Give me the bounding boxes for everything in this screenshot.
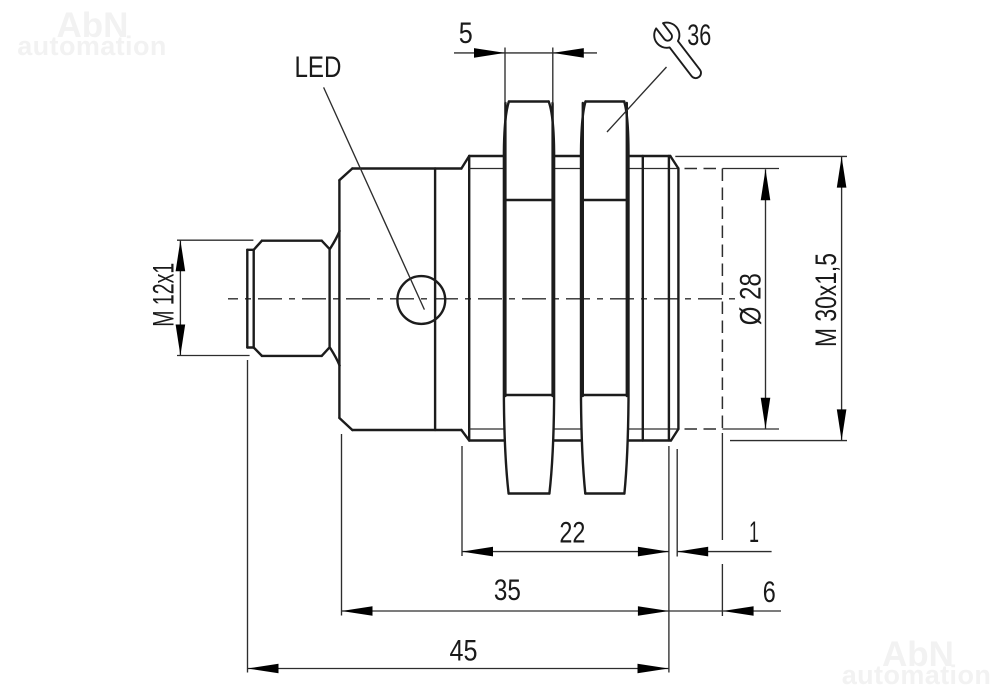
jam nut 2 chamfer lines <box>582 200 629 395</box>
thread run-in chamfer bottom <box>461 430 469 441</box>
svg-text:6: 6 <box>763 576 776 609</box>
LED window circle <box>397 276 445 324</box>
hidden sensing face <box>721 169 723 430</box>
front lip chamfer top <box>670 156 678 169</box>
dimension M 12x1 <box>148 240 254 355</box>
extension line 22 left <box>461 446 463 556</box>
LED leader line <box>324 87 425 309</box>
centerline <box>228 298 735 300</box>
thread crest bottom segments <box>469 439 671 441</box>
wrench icon <box>650 18 709 85</box>
svg-text:5: 5 <box>459 17 473 50</box>
connector M12 body <box>254 241 330 356</box>
jam nut 1 right side <box>549 102 554 494</box>
front face line <box>677 169 679 430</box>
svg-text:45: 45 <box>450 635 478 668</box>
connector-housing fillet bottom <box>330 348 339 366</box>
housing rear body <box>339 169 461 431</box>
extension line 45 left <box>247 360 249 673</box>
dimension 5 <box>454 17 597 104</box>
extension line front face <box>676 449 678 557</box>
jam nut 1 chamfer lines <box>504 200 553 395</box>
svg-text:36: 36 <box>687 19 711 52</box>
svg-text:automation: automation <box>17 31 167 61</box>
dimension 22 <box>462 517 669 557</box>
thread start line <box>468 156 470 441</box>
jam nut 2 left side <box>581 102 586 494</box>
jam nut 2 right side <box>624 102 628 494</box>
dimension diameter 28 <box>722 169 779 430</box>
housing front face line <box>434 169 436 431</box>
dimension 45 <box>248 635 669 674</box>
thread root bottom segments <box>469 428 678 430</box>
thread crest top segments <box>469 155 670 157</box>
jam nut 2 bottom edge <box>585 492 624 494</box>
extension line thread end <box>668 446 670 673</box>
hidden sensing head bottom edge <box>685 428 723 430</box>
thread end line <box>642 156 644 441</box>
watermark AbN automation bottom-right <box>842 635 992 690</box>
dimension 1 <box>677 516 771 556</box>
thread run-in chamfer top <box>461 156 469 169</box>
svg-text:M 30x1,5: M 30x1,5 <box>810 253 843 347</box>
watermark AbN automation top-left <box>17 6 167 61</box>
svg-text:LED: LED <box>295 51 342 84</box>
front lip line <box>668 156 670 441</box>
jam nut 1 face edges <box>505 103 552 396</box>
dimension 6 <box>669 576 781 616</box>
svg-text:M 12x1: M 12x1 <box>148 263 181 327</box>
thread root top segments <box>469 168 678 170</box>
hidden sensing head top edge <box>685 168 723 170</box>
connector M12 tip face <box>247 250 253 348</box>
wrench leader line <box>607 67 667 132</box>
connector-housing fillet top <box>330 231 339 249</box>
jam nut 2 face edges <box>583 103 627 396</box>
jam nut 1 left side <box>504 102 509 494</box>
jam nut 1 bottom edge <box>509 492 550 494</box>
jam nut 1 top edge <box>509 100 549 102</box>
dimension 35 <box>342 574 669 616</box>
svg-text:automation: automation <box>842 660 992 690</box>
svg-text:1: 1 <box>749 516 759 549</box>
jam nut 2 top edge <box>586 100 625 102</box>
extension line sensing face <box>721 433 723 616</box>
front lip chamfer bottom <box>671 429 678 441</box>
svg-text:35: 35 <box>494 574 521 607</box>
extension line 35 left <box>341 434 343 616</box>
svg-text:22: 22 <box>559 517 585 550</box>
dimension M 30x1,5 <box>675 156 847 440</box>
svg-text:Ø 28: Ø 28 <box>735 273 768 325</box>
